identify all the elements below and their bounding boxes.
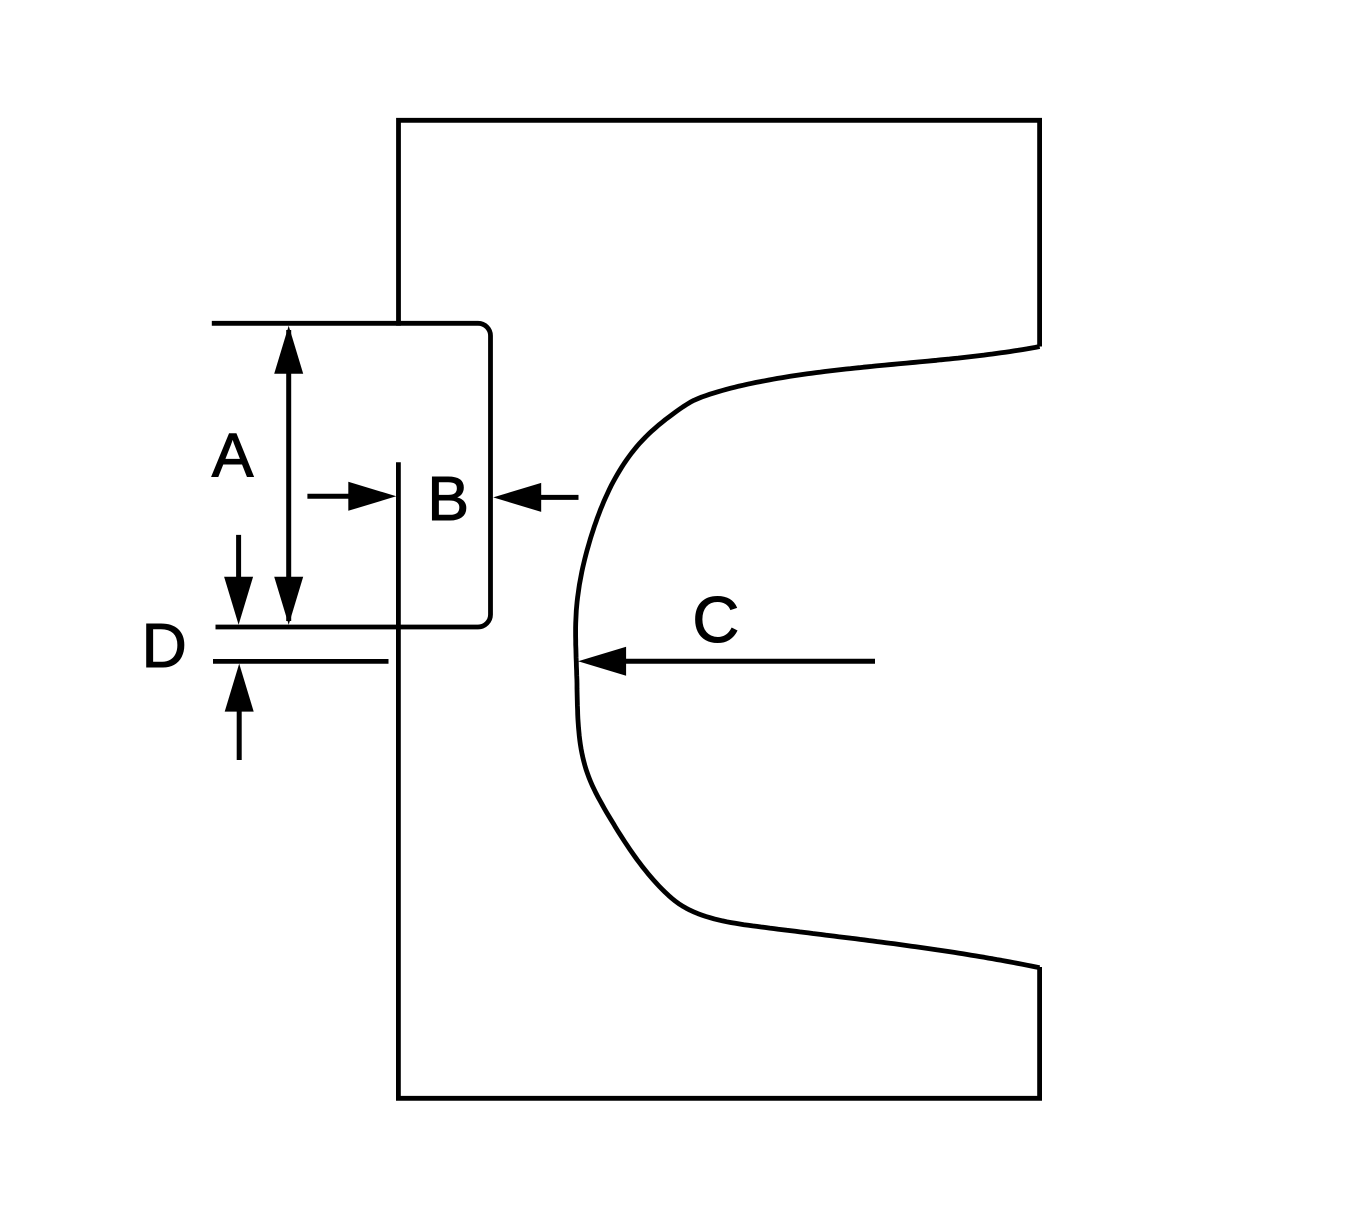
svg-text:B: B <box>427 464 469 534</box>
ring cross-section outline (top edge, right edge, bottom edge) <box>212 323 491 627</box>
piston body upper outline (left edge, top edge, right edge) <box>399 120 1040 346</box>
dimension B left arrowhead <box>348 482 396 511</box>
dimension A bottom arrowhead <box>274 577 303 625</box>
dimension A line <box>286 330 291 621</box>
svg-text:D: D <box>142 611 187 681</box>
dimension B right arrowhead <box>493 483 541 512</box>
dimension D lower arrow line <box>237 710 242 760</box>
dimension A top arrowhead <box>274 326 303 374</box>
groove lower flank line <box>213 659 389 664</box>
piston body lower outline (right edge, bottom edge, left edge) <box>398 462 1039 1098</box>
dimension B left arrow line <box>307 494 352 499</box>
dimension D upper arrow line <box>236 535 241 580</box>
piston groove contour curve <box>576 347 1040 968</box>
svg-text:C: C <box>692 583 739 656</box>
dimension D upper arrowhead <box>224 577 253 625</box>
dimension C arrow line <box>624 659 875 664</box>
dimension C arrowhead <box>578 647 626 676</box>
svg-text:A: A <box>212 420 254 490</box>
dimension D lower arrowhead <box>225 664 254 712</box>
dimension B right arrow line <box>540 495 579 500</box>
